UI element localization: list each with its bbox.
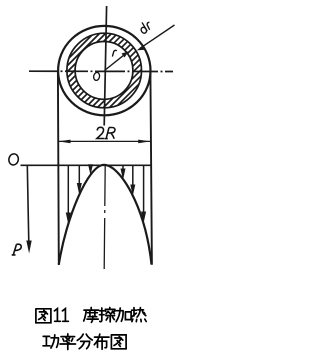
flow arrow 4 <box>122 165 124 170</box>
middle circle (ring outer boundary) <box>67 33 142 108</box>
2R left arrowhead <box>58 140 70 144</box>
left tangent line <box>57 71 60 266</box>
O center label <box>93 72 100 81</box>
flow arrow 5 <box>132 165 134 186</box>
P label <box>12 244 22 255</box>
2R right arrowhead <box>138 140 150 144</box>
caption line 1: 图11 摩擦加热 <box>36 308 146 323</box>
power baseline <box>21 164 151 166</box>
dr leader line <box>140 25 175 48</box>
flow arrow 1 <box>67 165 69 215</box>
P axis line <box>27 165 29 243</box>
vertical centerline (top) <box>104 6 106 126</box>
distribution curve (parabola) <box>59 165 152 265</box>
outer circle <box>58 26 150 115</box>
r arrow <box>105 54 126 71</box>
lower dash-dot centerline <box>104 166 105 269</box>
P axis arrowhead <box>26 241 31 254</box>
flow arrow 3 <box>90 164 92 167</box>
flow arrow 2 <box>78 165 80 185</box>
2R dimension line <box>58 140 151 142</box>
dr label <box>138 19 154 34</box>
flow arrow 6 <box>143 165 145 213</box>
r label <box>112 50 117 56</box>
inner circle (ring inner boundary) <box>75 42 133 100</box>
hatch ring (friction annulus) <box>9 28 201 112</box>
2R label <box>97 127 105 138</box>
right tangent line <box>150 71 152 265</box>
horizontal centerline <box>29 70 173 72</box>
caption line 2: 功率分布图 <box>43 334 126 350</box>
O axis label <box>8 153 20 166</box>
